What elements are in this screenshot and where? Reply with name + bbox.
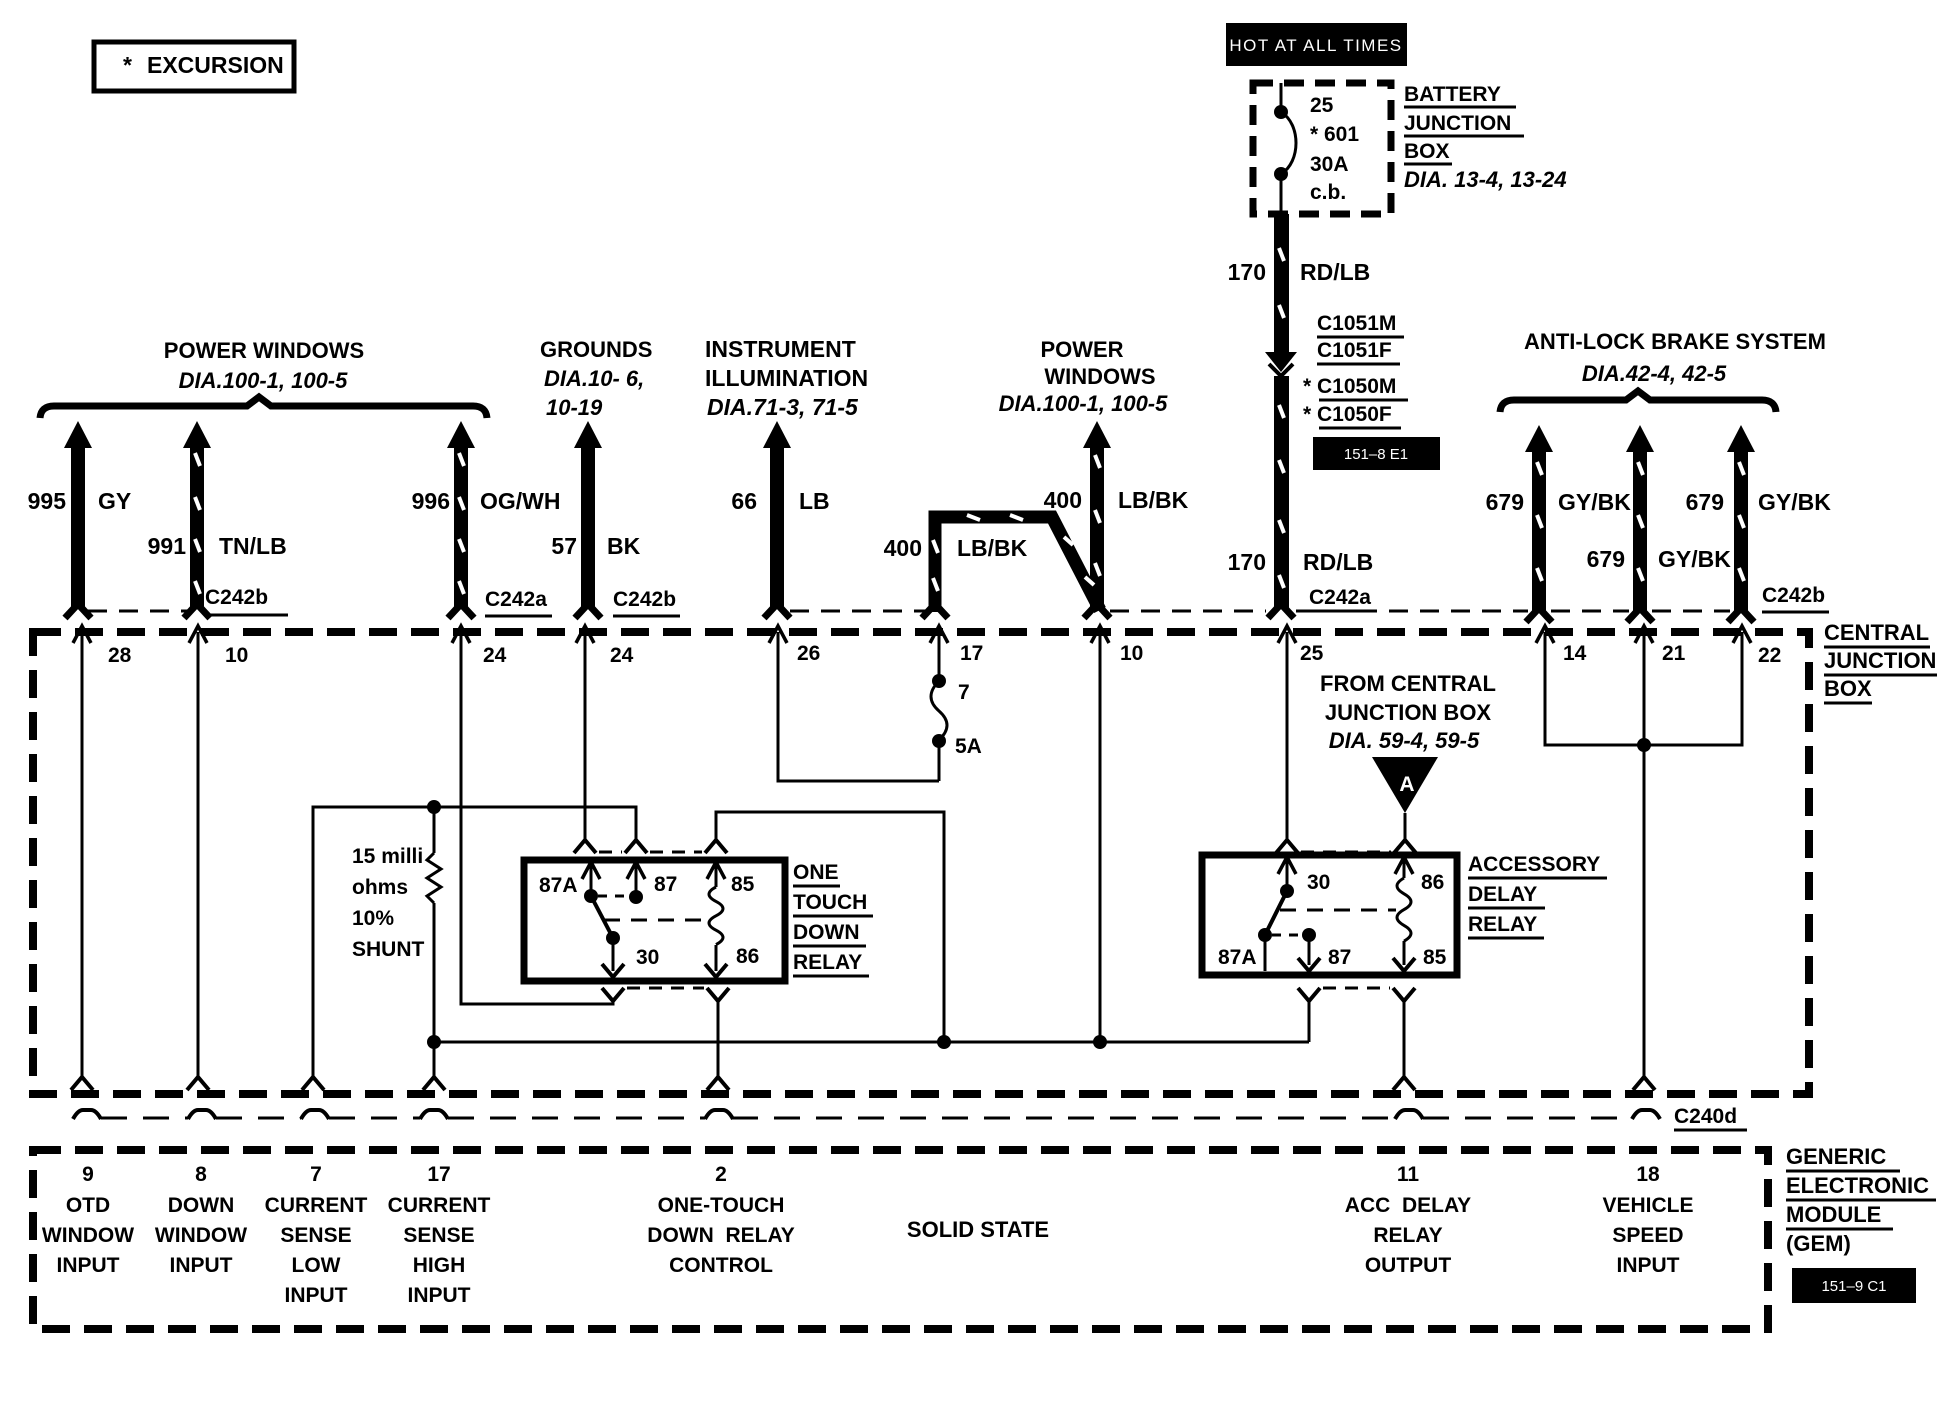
- GEM pin 9 OTD window input: [42, 1163, 134, 1277]
- svg-text:GENERIC: GENERIC: [1786, 1144, 1886, 1169]
- svg-text:GY/BK: GY/BK: [1758, 489, 1831, 515]
- svg-text:170: 170: [1228, 259, 1266, 285]
- generic electronic module label: [1786, 1144, 1936, 1256]
- svg-text:170: 170: [1228, 549, 1266, 575]
- svg-text:DIA.10- 6,: DIA.10- 6,: [544, 366, 644, 391]
- svg-text:DIA.100-1, 100-5: DIA.100-1, 100-5: [179, 368, 349, 393]
- svg-text:C242a: C242a: [1309, 586, 1371, 609]
- svg-text:CONTROL: CONTROL: [669, 1254, 773, 1277]
- central junction box label: [1824, 620, 1937, 703]
- power windows heading (left): [164, 338, 364, 393]
- svg-text:POWER: POWER: [1040, 337, 1123, 362]
- svg-text:JUNCTION: JUNCTION: [1404, 112, 1511, 135]
- svg-text:WINDOWS: WINDOWS: [1044, 364, 1155, 389]
- wire 679 GY/BK (abs 3): [1686, 425, 1832, 622]
- connector C240d line: [73, 1110, 1660, 1119]
- svg-text:5A: 5A: [955, 735, 982, 758]
- svg-text:87: 87: [1328, 946, 1351, 969]
- svg-text:995: 995: [28, 488, 67, 514]
- svg-text:400: 400: [884, 535, 922, 561]
- relay connector dashes (acc, bottom): [1323, 987, 1390, 990]
- svg-text:ACC DELAY: ACC DELAY: [1345, 1194, 1471, 1217]
- accessory relay pin 87A: [1218, 935, 1265, 971]
- svg-text:* C1050F: * C1050F: [1303, 403, 1392, 426]
- svg-text:RELAY: RELAY: [1373, 1224, 1442, 1247]
- wire relay 85 loop: [705, 812, 951, 1049]
- svg-text:10: 10: [225, 644, 248, 667]
- relay connector dashes (one touch, bottom): [627, 987, 704, 990]
- svg-text:JUNCTION BOX: JUNCTION BOX: [1325, 700, 1492, 725]
- svg-text:9: 9: [82, 1163, 94, 1186]
- grid reference 151-9 C1: [1792, 1268, 1916, 1303]
- svg-text:10%: 10%: [352, 907, 394, 930]
- svg-text:RELAY: RELAY: [793, 951, 862, 974]
- one touch relay coil pins 85-86: [705, 862, 759, 977]
- svg-text:INPUT: INPUT: [408, 1284, 471, 1307]
- one touch relay switch blade: [591, 896, 620, 945]
- svg-text:SPEED: SPEED: [1612, 1224, 1683, 1247]
- svg-text:INPUT: INPUT: [1617, 1254, 1680, 1277]
- wire 170 RD/LB lower segment: [1228, 364, 1374, 618]
- svg-text:SOLID STATE: SOLID STATE: [907, 1217, 1049, 1242]
- connector C1051M/C1051F: [1317, 312, 1404, 364]
- svg-text:10: 10: [1120, 642, 1143, 665]
- pin 22 arrow and number: [1733, 626, 1781, 667]
- wire relay 86 to GEM 2: [707, 988, 729, 1090]
- svg-text:87A: 87A: [539, 874, 578, 897]
- svg-text:LOW: LOW: [292, 1254, 341, 1277]
- svg-text:ACCESSORY: ACCESSORY: [1468, 853, 1600, 876]
- svg-text:C240d: C240d: [1674, 1105, 1737, 1128]
- svg-text:CURRENT: CURRENT: [265, 1194, 368, 1217]
- svg-text:8: 8: [195, 1163, 207, 1186]
- svg-text:C1051M: C1051M: [1317, 312, 1396, 335]
- svg-text:DOWN: DOWN: [793, 921, 860, 944]
- svg-text:GROUNDS: GROUNDS: [540, 337, 652, 362]
- accessory relay coil pins 86-85: [1393, 857, 1447, 971]
- svg-text:GY/BK: GY/BK: [1558, 489, 1631, 515]
- svg-text:WINDOW: WINDOW: [42, 1224, 134, 1247]
- svg-text:679: 679: [1587, 546, 1625, 572]
- svg-text:ANTI-LOCK BRAKE SYSTEM: ANTI-LOCK BRAKE SYSTEM: [1524, 329, 1826, 354]
- svg-text:14: 14: [1563, 642, 1587, 665]
- svg-text:ONE-TOUCH: ONE-TOUCH: [658, 1194, 785, 1217]
- svg-text:RD/LB: RD/LB: [1300, 259, 1370, 285]
- wire pins 14/21/22 join: [1545, 632, 1742, 752]
- connector C240d label: [1674, 1105, 1747, 1130]
- generic electronic module dashed border: [33, 1150, 1768, 1329]
- svg-text:151–8 E1: 151–8 E1: [1344, 446, 1408, 463]
- excursion note box: [94, 42, 294, 91]
- svg-text:10-19: 10-19: [546, 395, 603, 420]
- wire 400 LB/BK arrow (power windows): [1044, 421, 1189, 618]
- svg-text:7: 7: [958, 681, 970, 704]
- wire 679 GY/BK (abs 2): [1587, 425, 1732, 622]
- svg-text:87: 87: [654, 873, 677, 896]
- one touch down relay label: [793, 861, 873, 976]
- wire pin 28 to GEM 9: [71, 632, 93, 1090]
- svg-text:57: 57: [551, 533, 577, 559]
- svg-text:OUTPUT: OUTPUT: [1365, 1254, 1452, 1277]
- svg-text:C242b: C242b: [205, 586, 268, 609]
- svg-text:WINDOW: WINDOW: [155, 1224, 247, 1247]
- svg-text:24: 24: [483, 644, 507, 667]
- svg-text:* C1050M: * C1050M: [1303, 375, 1396, 398]
- svg-text:BOX: BOX: [1404, 140, 1450, 163]
- svg-text:*: *: [123, 52, 132, 78]
- svg-text:28: 28: [108, 644, 132, 667]
- svg-text:GY/BK: GY/BK: [1658, 546, 1731, 572]
- svg-text:TOUCH: TOUCH: [793, 891, 867, 914]
- connector line at C242 (thin dashes): [88, 610, 1730, 613]
- bus wire horizontal: [434, 1041, 1309, 1044]
- GEM pin 2 one-touch down relay control: [647, 1163, 794, 1277]
- pin 14 arrow and number: [1536, 626, 1587, 665]
- svg-text:JUNCTION: JUNCTION: [1824, 648, 1936, 673]
- grounds heading: [540, 337, 652, 420]
- one touch relay pin 30: [602, 938, 659, 977]
- svg-text:DELAY: DELAY: [1468, 883, 1537, 906]
- accessory relay pin 87: [1272, 928, 1351, 971]
- svg-text:DOWN RELAY: DOWN RELAY: [647, 1224, 794, 1247]
- wire 995 GY: [28, 421, 132, 618]
- svg-text:TN/LB: TN/LB: [219, 533, 287, 559]
- svg-text:OG/WH: OG/WH: [480, 488, 561, 514]
- svg-text:991: 991: [148, 533, 187, 559]
- instrument illumination heading: [705, 336, 868, 420]
- svg-text:CENTRAL: CENTRAL: [1824, 620, 1929, 645]
- connector C1050M/C1050F: [1303, 375, 1408, 428]
- svg-text:400: 400: [1044, 487, 1082, 513]
- svg-text:SENSE: SENSE: [280, 1224, 351, 1247]
- svg-text:C242b: C242b: [1762, 584, 1825, 607]
- pin 10 arrow and number (middle): [1091, 626, 1143, 665]
- svg-text:24: 24: [610, 644, 634, 667]
- svg-text:(GEM): (GEM): [1786, 1231, 1851, 1256]
- connector label C242a (wire 170): [1309, 586, 1377, 611]
- brace power windows: [40, 397, 487, 418]
- svg-text:151–9 C1: 151–9 C1: [1821, 1278, 1886, 1295]
- wire pin 25 to acc relay 30: [1276, 632, 1298, 853]
- one touch relay pin 87: [598, 862, 677, 904]
- wire 679 GY/BK (abs 1): [1486, 425, 1632, 622]
- pin 10 arrow and number (left): [189, 626, 248, 667]
- wire pin 24 (first) to relay pin 30: [461, 632, 624, 1004]
- svg-text:DOWN: DOWN: [168, 1194, 235, 1217]
- svg-text:C242a: C242a: [485, 588, 547, 611]
- svg-text:ohms: ohms: [352, 876, 408, 899]
- power windows heading (middle): [999, 337, 1169, 416]
- svg-text:15 milli: 15 milli: [352, 845, 423, 868]
- wire pin 10 (middle) down to bus: [1093, 632, 1107, 1049]
- one touch relay pin 87A: [539, 862, 600, 903]
- svg-text:30: 30: [1307, 871, 1330, 894]
- svg-text:C242b: C242b: [613, 588, 676, 611]
- A triangle connector: [1372, 757, 1438, 853]
- svg-text:ELECTRONIC: ELECTRONIC: [1786, 1173, 1929, 1198]
- svg-text:18: 18: [1636, 1163, 1660, 1186]
- pin 24 arrow and number (second): [576, 626, 634, 667]
- connector label C242b (mid): [613, 588, 680, 616]
- connector label C242b (right): [1762, 584, 1829, 612]
- svg-text:7: 7: [310, 1163, 322, 1186]
- svg-text:RELAY: RELAY: [1468, 913, 1537, 936]
- circuit breaker 30A c.b.: [1274, 83, 1296, 214]
- svg-text:DIA.100-1, 100-5: DIA.100-1, 100-5: [999, 391, 1169, 416]
- svg-text:87A: 87A: [1218, 946, 1257, 969]
- connector label C242b (left): [205, 586, 288, 615]
- from central junction box heading: [1320, 671, 1496, 753]
- pin 17 arrow and number: [930, 626, 983, 665]
- hot at all times label: [1226, 23, 1407, 66]
- svg-text:26: 26: [797, 642, 820, 665]
- accessory relay actuator dashed link: [1280, 909, 1396, 912]
- shunt label: [352, 845, 425, 961]
- GEM solid state label: [907, 1217, 1049, 1242]
- battery junction box: [1253, 83, 1391, 214]
- connector label C242a (left): [485, 588, 552, 616]
- one touch down relay box: [524, 860, 785, 981]
- wire pin 26 to fuse: [778, 632, 939, 781]
- battery junction box labels: [1404, 83, 1567, 192]
- brace anti-lock brake system: [1500, 391, 1776, 412]
- wire acc relay 85 to GEM 11: [1393, 988, 1415, 1090]
- svg-text:EXCURSION: EXCURSION: [147, 52, 284, 78]
- wire pin 10 to GEM 8: [187, 632, 209, 1090]
- wire 57 BK: [551, 421, 640, 618]
- wire 66 LB: [731, 421, 829, 618]
- accessory delay relay label: [1468, 853, 1607, 938]
- wire junction to GEM 18: [1633, 745, 1655, 1090]
- wire left loop to GEM 7: [302, 800, 647, 1090]
- pin 21 arrow and number: [1635, 626, 1686, 665]
- svg-text:86: 86: [1421, 871, 1444, 894]
- wire 996 OG/WH: [412, 421, 561, 618]
- svg-text:21: 21: [1662, 642, 1686, 665]
- svg-text:POWER WINDOWS: POWER WINDOWS: [164, 338, 364, 363]
- svg-text:30A: 30A: [1310, 153, 1349, 176]
- accessory relay pin 30: [1278, 857, 1330, 898]
- wire 170 RD/LB upper segment: [1228, 214, 1371, 372]
- pin 28 arrow and number: [73, 626, 132, 667]
- svg-text:679: 679: [1486, 489, 1524, 515]
- svg-text:BATTERY: BATTERY: [1404, 83, 1501, 106]
- svg-text:85: 85: [1423, 946, 1447, 969]
- svg-text:VEHICLE: VEHICLE: [1602, 1194, 1693, 1217]
- svg-text:LB/BK: LB/BK: [957, 535, 1028, 561]
- svg-text:INPUT: INPUT: [170, 1254, 233, 1277]
- svg-text:996: 996: [412, 488, 450, 514]
- svg-text:DIA.71-3, 71-5: DIA.71-3, 71-5: [707, 394, 859, 420]
- svg-text:* 601: * 601: [1310, 123, 1359, 146]
- accessory delay relay box: [1202, 855, 1457, 975]
- svg-text:2: 2: [715, 1163, 727, 1186]
- svg-text:SENSE: SENSE: [403, 1224, 474, 1247]
- svg-text:BOX: BOX: [1824, 676, 1872, 701]
- svg-text:DIA. 13-4, 13-24: DIA. 13-4, 13-24: [1404, 167, 1567, 192]
- GEM pin 18 vehicle speed input: [1602, 1163, 1693, 1277]
- svg-text:HOT AT ALL TIMES: HOT AT ALL TIMES: [1229, 36, 1402, 55]
- svg-text:OTD: OTD: [66, 1194, 110, 1217]
- GEM pin 8 down window input: [155, 1163, 247, 1277]
- svg-text:SHUNT: SHUNT: [352, 938, 425, 961]
- svg-text:679: 679: [1686, 489, 1724, 515]
- pin 26 arrow and number: [769, 626, 820, 665]
- relay connector dashes (one touch, top): [599, 851, 702, 854]
- one touch relay actuator dashed link: [604, 919, 709, 922]
- wire acc relay 87 to bus: [1298, 988, 1320, 1042]
- GEM pin 17 current sense high input: [388, 1163, 491, 1307]
- wire shunt to GEM 17: [423, 1042, 445, 1090]
- svg-text:DIA. 59-4, 59-5: DIA. 59-4, 59-5: [1329, 728, 1480, 753]
- GEM pin 11 acc delay relay output: [1345, 1163, 1471, 1277]
- svg-text:ILLUMINATION: ILLUMINATION: [705, 365, 868, 391]
- svg-text:17: 17: [427, 1163, 450, 1186]
- pin 24 arrow and number (first): [452, 626, 507, 667]
- fuse 7 / 5A: [931, 630, 982, 781]
- svg-text:LB: LB: [799, 488, 830, 514]
- svg-text:A: A: [1399, 773, 1414, 796]
- svg-text:17: 17: [960, 642, 983, 665]
- svg-text:INSTRUMENT: INSTRUMENT: [705, 336, 856, 362]
- svg-text:30: 30: [636, 946, 659, 969]
- svg-text:HIGH: HIGH: [413, 1254, 466, 1277]
- wire pin 24 (second) to relay pin 87A: [574, 632, 596, 853]
- svg-text:BK: BK: [607, 533, 641, 559]
- svg-text:MODULE: MODULE: [1786, 1202, 1881, 1227]
- wire 400 LB/BK bent branch: [884, 515, 1100, 618]
- anti-lock brake system heading: [1524, 329, 1826, 386]
- svg-text:25: 25: [1310, 94, 1334, 117]
- svg-text:INPUT: INPUT: [57, 1254, 120, 1277]
- svg-text:c.b.: c.b.: [1310, 181, 1346, 204]
- svg-text:RD/LB: RD/LB: [1303, 549, 1373, 575]
- svg-text:25: 25: [1300, 642, 1324, 665]
- relay connector dashes (acc, top): [1301, 851, 1391, 854]
- GEM pin 7 current sense low input: [265, 1163, 368, 1307]
- svg-text:LB/BK: LB/BK: [1118, 487, 1189, 513]
- svg-text:INPUT: INPUT: [285, 1284, 348, 1307]
- svg-text:CURRENT: CURRENT: [388, 1194, 491, 1217]
- svg-text:C1051F: C1051F: [1317, 339, 1392, 362]
- svg-text:22: 22: [1758, 644, 1781, 667]
- svg-text:66: 66: [731, 488, 757, 514]
- grid reference 151-8 E1: [1313, 437, 1440, 470]
- svg-text:11: 11: [1397, 1163, 1420, 1186]
- svg-text:ONE: ONE: [793, 861, 839, 884]
- svg-text:DIA.42-4, 42-5: DIA.42-4, 42-5: [1582, 361, 1727, 386]
- svg-text:GY: GY: [98, 488, 131, 514]
- svg-text:FROM CENTRAL: FROM CENTRAL: [1320, 671, 1496, 696]
- pin 25 arrow and number: [1278, 626, 1324, 665]
- svg-text:85: 85: [731, 873, 755, 896]
- accessory relay switch blade: [1258, 891, 1287, 942]
- svg-text:86: 86: [736, 945, 759, 968]
- wire 991 TN/LB: [148, 421, 287, 618]
- central junction box dashed border: [33, 632, 1809, 1094]
- shunt resistor 15 milliohm: [427, 807, 441, 1049]
